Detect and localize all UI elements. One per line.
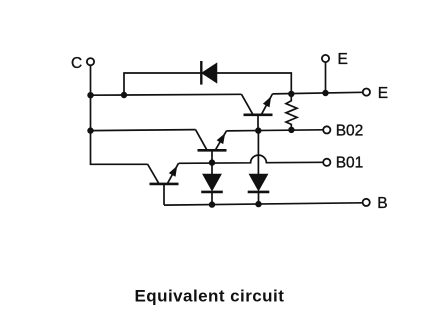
svg-text:E: E bbox=[378, 85, 388, 102]
wire C vertical down to Q3 collector feed bbox=[91, 66, 148, 165]
junction dot Q2 base / B01 rail bbox=[209, 159, 215, 165]
svg-text:Equivalent circuit: Equivalent circuit bbox=[135, 286, 285, 305]
terminal B bbox=[363, 199, 370, 206]
junction dot resistor top / E rail bbox=[288, 91, 294, 97]
svg-text:B02: B02 bbox=[336, 122, 364, 139]
wire collector rail 2 (C to Q2) bbox=[91, 130, 196, 131]
wire D3 anode riser (B02 node down under hump) bbox=[257, 131, 259, 176]
junction dot Q1 base / B02 rail bbox=[255, 127, 261, 133]
wire B02 rail (Q2 emitter to terminal B02) bbox=[227, 130, 324, 131]
resistor R1 (E to B02) bbox=[286, 94, 297, 130]
junction dot E riser / E rail bbox=[322, 90, 328, 96]
junction dot diode branch / rail1 bbox=[121, 92, 127, 98]
transistor Q3 (input stage) bbox=[148, 163, 179, 205]
wire B01 rail (Q3 emitter to terminal B01) with crossover hump bbox=[179, 155, 324, 163]
wire collector rail 1 (C to Q1) bbox=[91, 93, 242, 96]
wire diode branch (C rail up over to E rail) bbox=[124, 73, 291, 95]
svg-text:E: E bbox=[338, 51, 348, 68]
terminal C bbox=[87, 58, 94, 65]
terminal E (right) bbox=[363, 89, 370, 96]
diode D3 (B02 node to B line) (anode top, cathode to B line) bbox=[248, 175, 270, 205]
wire E rail (Q1 emitter to terminal E) bbox=[273, 92, 363, 94]
wire B rail (Q3 base to terminal B) bbox=[164, 203, 362, 205]
transistor Q1 (output stage) bbox=[242, 94, 273, 131]
svg-text:B: B bbox=[377, 195, 387, 212]
junction dot D2 / B rail bbox=[209, 201, 215, 207]
transistor Q2 (driver stage) bbox=[196, 130, 227, 163]
terminal B01 bbox=[323, 159, 330, 166]
diode D2 (B01 node to B line) (anode top, cathode to B line) bbox=[201, 163, 223, 205]
junction dot C-line / rail2 bbox=[87, 127, 93, 133]
wire E1 riser bbox=[325, 62, 327, 93]
terminal E (top) bbox=[322, 55, 329, 62]
diode D1 freewheel (anode at E side, cathode at C side) bbox=[201, 61, 216, 85]
junction dot resistor bottom / B02 rail bbox=[288, 127, 294, 133]
junction dot D3 / B rail bbox=[255, 201, 261, 207]
svg-text:C: C bbox=[71, 55, 82, 72]
junction dot C-line / rail1 bbox=[87, 92, 93, 98]
svg-text:B01: B01 bbox=[336, 155, 364, 172]
terminal B02 bbox=[323, 126, 330, 133]
